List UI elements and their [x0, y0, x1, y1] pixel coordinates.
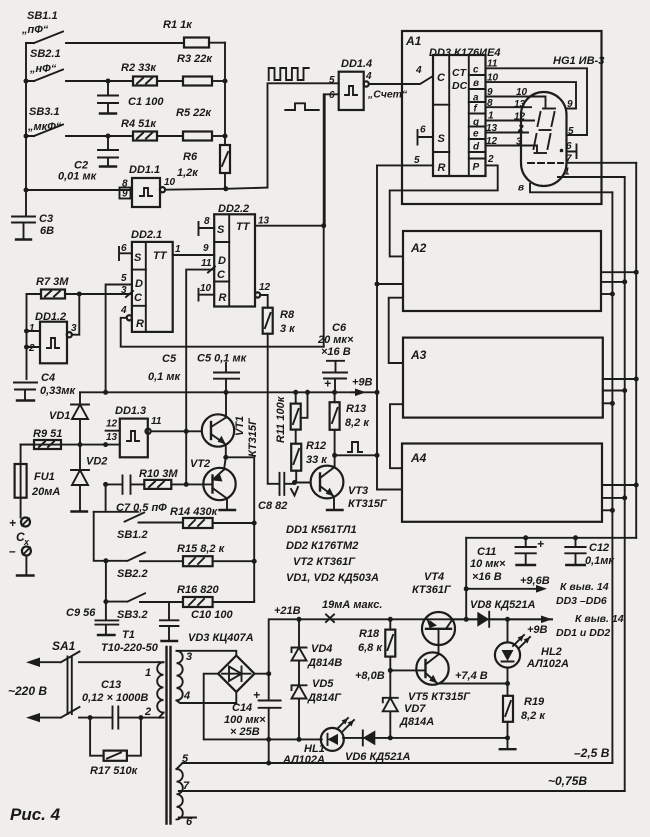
pin 8 stub DD2.2 S: [199, 222, 215, 235]
svg-text:0,01 мк: 0,01 мк: [58, 171, 98, 183]
wire +7.4 row: [438, 683, 508, 685]
resistor R18: [358, 619, 395, 670]
switch SA1 link: [68, 657, 72, 715]
node R19 bottom: [505, 735, 510, 740]
resistor R19: [500, 684, 547, 750]
node sensor column: [78, 442, 83, 447]
svg-text:VT2 КТ361Г: VT2 КТ361Г: [293, 556, 356, 568]
capacitor C12: [565, 538, 615, 567]
switch SB1.1: [21, 10, 184, 43]
svg-text:P: P: [473, 162, 480, 173]
svg-text:К выв. 14: К выв. 14: [560, 581, 609, 593]
wire A2 to A3 chain jog: [389, 298, 403, 363]
node emitters junction: [223, 455, 228, 460]
node A3a: [610, 401, 615, 406]
bus3 vertical right: [635, 163, 637, 538]
svg-text:SB2.2: SB2.2: [117, 568, 148, 580]
svg-text:S: S: [217, 224, 225, 236]
pin P carry wire: [390, 165, 498, 256]
resistor R12: [291, 440, 328, 483]
node junction DD1.1 input: [24, 188, 29, 193]
svg-text:R7 3М: R7 3М: [36, 276, 69, 288]
tube HG1 envelope: [521, 92, 567, 186]
tube pin 7 wire: [567, 162, 637, 164]
svg-text:„пФ“: „пФ“: [21, 24, 49, 36]
svg-text:2: 2: [144, 706, 151, 718]
wire R7 node to DD2.1 C: [79, 291, 133, 297]
gate DD1.3: [106, 405, 162, 457]
wire A3 stub c: [603, 378, 636, 380]
svg-text:11: 11: [151, 416, 162, 427]
transistor VT2: [190, 457, 236, 510]
svg-text:a: a: [473, 93, 479, 104]
capacitor C13: [82, 679, 148, 729]
svg-text:C: C: [217, 269, 226, 281]
svg-text:DD1 и DD2: DD1 и DD2: [556, 627, 610, 639]
svg-text:КТ315Г: КТ315Г: [348, 498, 388, 510]
node R3 right: [223, 79, 228, 84]
wire A3 stub a: [603, 402, 613, 404]
svg-text:+: +: [253, 688, 260, 702]
tube pin 8 wire: [530, 184, 612, 192]
svg-text:VD2: VD2: [86, 456, 107, 468]
pin 1 wire g: [486, 120, 535, 122]
wire R12 bottom to VT3 base: [295, 482, 311, 484]
resistor R5: [176, 107, 225, 141]
node DD1.2 pin1: [24, 329, 29, 334]
T1 winding 5-7: [177, 763, 183, 819]
svg-text:11: 11: [487, 59, 498, 70]
wire A4 stub c: [602, 484, 636, 486]
capacitor C10: [160, 602, 233, 641]
svg-text:A1: A1: [405, 34, 422, 48]
svg-text:КТ315Г: КТ315Г: [247, 417, 259, 457]
switch SB2.2: [106, 553, 183, 581]
pin 11 wire c: [486, 68, 588, 135]
svg-text:R18: R18: [359, 628, 380, 640]
node SB3.2 feed: [103, 599, 108, 604]
pin 12 wire d: [486, 146, 538, 153]
svg-text:S: S: [438, 133, 446, 145]
svg-text:d: d: [473, 142, 480, 153]
svg-text:SB3.2: SB3.2: [117, 609, 148, 621]
svg-text:0,12 × 1000В: 0,12 × 1000В: [82, 692, 148, 704]
diode VD1: [49, 392, 89, 444]
zener VD5: [292, 678, 343, 739]
svg-text:DD2.1: DD2.1: [131, 229, 162, 241]
wire left chain: [94, 512, 106, 620]
capacitor C4: [14, 372, 77, 401]
svg-text:8,2 к: 8,2 к: [521, 710, 546, 722]
svg-text:8,2 к: 8,2 к: [345, 417, 370, 429]
node HL2 top: [505, 617, 510, 622]
wire 0V rail: [343, 737, 508, 739]
svg-text:R9 51: R9 51: [33, 428, 62, 440]
svg-text:C13: C13: [101, 679, 121, 691]
T1 primary winding: [157, 662, 163, 717]
switch SA1 top pole: [26, 639, 159, 667]
wire A2 stub b: [601, 281, 625, 283]
svg-text:+: +: [324, 377, 331, 391]
pin 11 wire DD2.2 C: [186, 267, 215, 485]
switch SA1 bottom pole: [26, 707, 159, 722]
svg-text:+9,6В: +9,6В: [520, 575, 550, 587]
svg-text:9: 9: [487, 87, 493, 98]
node D-line: [103, 390, 108, 395]
switch SB2.1: [26, 48, 108, 81]
svg-text:9: 9: [567, 99, 573, 110]
svg-text:100 мк×: 100 мк×: [224, 714, 266, 726]
svg-text:C3: C3: [39, 213, 53, 225]
wire DD1.4 out to A1: [369, 76, 433, 84]
node VT1 collector: [224, 390, 229, 395]
pin 13 wire DD2.2 out: [255, 225, 324, 227]
svg-text:VD7: VD7: [404, 703, 426, 715]
svg-text:33 к: 33 к: [306, 454, 328, 466]
svg-text:10 мк×: 10 мк×: [470, 558, 506, 570]
wire A3 stub b: [603, 390, 625, 392]
gate DD1.1: [120, 164, 176, 207]
svg-text:в: в: [518, 183, 524, 194]
svg-text:DD2 К176ТМ2: DD2 К176ТМ2: [286, 540, 358, 552]
arrow +9V out: [527, 616, 552, 637]
block A1 box: [402, 31, 602, 204]
svg-text:7: 7: [566, 154, 572, 165]
IC DD3 box: [433, 55, 486, 176]
gate DD1.2: [27, 311, 78, 363]
svg-text:C10 100: C10 100: [191, 609, 233, 621]
svg-text:R3 22к: R3 22к: [177, 53, 213, 65]
node C14 bottom: [266, 737, 271, 742]
svg-text:+21В: +21В: [274, 605, 301, 617]
svg-text:АЛ102А: АЛ102А: [526, 658, 569, 670]
node C11 top: [523, 535, 528, 540]
svg-text:R: R: [136, 318, 144, 330]
node base tie: [184, 482, 189, 487]
fuse FU1: [15, 445, 61, 518]
svg-text:+: +: [537, 537, 544, 551]
wire DD1.1 inputs: [26, 189, 132, 191]
wire minus stub: [25, 556, 27, 575]
capacitor C1: [98, 81, 164, 114]
svg-text:8: 8: [487, 98, 493, 109]
node rail tie: [375, 390, 380, 395]
svg-text:0,1 мк: 0,1 мк: [148, 371, 181, 383]
svg-text:~0,75В: ~0,75В: [548, 774, 587, 788]
node VD5 bottom: [297, 737, 302, 742]
svg-text:+7,4 В: +7,4 В: [455, 670, 488, 682]
svg-text:12: 12: [106, 419, 118, 430]
capacitor C8: [258, 473, 298, 512]
T1 winding 3-4: [177, 651, 236, 703]
resistor R17: [90, 718, 141, 777]
svg-text:Рис. 4: Рис. 4: [10, 805, 61, 824]
svg-text:R6: R6: [183, 151, 198, 163]
block A2 box: [403, 231, 601, 311]
resistor R9: [21, 428, 63, 449]
svg-text:VD5: VD5: [312, 678, 334, 690]
svg-text:13: 13: [258, 216, 270, 227]
diode VD8: [453, 599, 553, 627]
svg-text:SA1: SA1: [52, 639, 76, 653]
svg-text:6: 6: [566, 141, 572, 152]
svg-text:DD1 К561ТЛ1: DD1 К561ТЛ1: [286, 524, 357, 536]
node C6 bottom: [332, 390, 337, 395]
svg-text:×16 В: ×16 В: [472, 571, 502, 583]
pin 10 wire b: [486, 82, 577, 108]
svg-text:C5: C5: [162, 353, 177, 365]
svg-text:HG1 ИВ-3: HG1 ИВ-3: [553, 55, 604, 67]
diode VD6: [345, 730, 411, 763]
svg-text:9: 9: [203, 243, 209, 254]
node R13 bottom: [332, 453, 337, 458]
x mark: [326, 615, 334, 623]
svg-text:5: 5: [329, 75, 335, 86]
node C13 right: [138, 715, 143, 720]
svg-text:12: 12: [259, 282, 271, 293]
svg-text:FU1: FU1: [34, 471, 55, 483]
svg-text:Д814Г: Д814Г: [307, 692, 342, 704]
svg-text:×16 В: ×16 В: [321, 346, 351, 358]
node R15 right: [252, 559, 257, 564]
block A4 box: [402, 444, 602, 522]
svg-text:T1: T1: [122, 629, 135, 641]
svg-text:1: 1: [145, 667, 151, 679]
node A2 R stub: [375, 282, 380, 287]
svg-text:в: в: [473, 78, 479, 89]
wire bridge plus: [255, 619, 553, 673]
svg-text:VD8 КД521А: VD8 КД521А: [470, 599, 536, 611]
svg-text:R19: R19: [524, 696, 545, 708]
resistor R6: [177, 145, 230, 189]
wire 0.75V line: [179, 790, 625, 792]
node R6 bottom: [223, 186, 228, 191]
svg-text:VD4: VD4: [311, 643, 332, 655]
wire R bus vertical: [224, 43, 226, 145]
svg-text:АЛ102А: АЛ102А: [282, 754, 325, 766]
capacitor C14: [224, 674, 281, 740]
node R5 right: [223, 134, 228, 139]
svg-text:10: 10: [200, 283, 212, 294]
svg-text:6: 6: [121, 243, 127, 254]
wire R7 left to DD1.2: [26, 294, 28, 379]
svg-text:КТ361Г: КТ361Г: [412, 584, 452, 596]
svg-text:R11 100к: R11 100к: [275, 395, 287, 443]
wire DD1.2 out to R7 node: [72, 294, 79, 335]
node +9.6 arrow: [464, 586, 469, 591]
capacitor C5: [197, 353, 248, 393]
svg-text:6: 6: [329, 90, 335, 101]
svg-text:SB1.1: SB1.1: [27, 10, 58, 22]
svg-text:20мА: 20мА: [31, 486, 60, 498]
node A2c: [634, 270, 639, 275]
capacitor C2: [58, 136, 118, 183]
capacitor C7: [106, 475, 168, 514]
label +9V arrow: [352, 377, 373, 397]
svg-text:13: 13: [106, 432, 118, 443]
pin 1 wire DD2.1 out: [173, 254, 215, 256]
svg-text:+9В: +9В: [352, 377, 373, 389]
wire A2 R stub: [377, 283, 403, 285]
node A3b: [622, 388, 627, 393]
svg-text:R5 22к: R5 22к: [176, 107, 212, 119]
node junction SB2.1: [24, 79, 29, 84]
wire DD1.4 pin6: [325, 94, 339, 225]
wire SB2.1 row: [108, 80, 133, 82]
wire sensor to SB1.2 row: [94, 484, 138, 511]
svg-text:SB3.1: SB3.1: [29, 106, 60, 118]
wire C14 to tap5: [268, 739, 270, 763]
svg-text:R10 3М: R10 3М: [139, 468, 178, 480]
wire bridge minus: [204, 674, 322, 740]
svg-text:10: 10: [516, 87, 528, 98]
svg-text:VD3 КЦ407А: VD3 КЦ407А: [188, 632, 254, 644]
pin 4 DD2.1 R: [120, 305, 324, 347]
svg-text:C14: C14: [232, 702, 252, 714]
svg-text:4: 4: [183, 690, 190, 702]
svg-text:VT4: VT4: [424, 571, 444, 583]
resistor R4: [121, 118, 183, 141]
pin 10 stub DD2.2 R: [199, 289, 215, 301]
svg-text:3: 3: [186, 651, 192, 663]
wire DD1.1 output row: [165, 188, 267, 190]
resistor R13: [330, 392, 371, 455]
svg-text:4: 4: [415, 65, 422, 76]
switch SB3.1: [26, 106, 108, 136]
wire A2 stub a: [601, 293, 612, 295]
node R11 top: [293, 390, 298, 395]
svg-text:R: R: [438, 162, 446, 174]
pin 6 stub DD2.1 S: [119, 247, 132, 260]
wire +9V rail: [80, 391, 378, 393]
svg-text:3 к: 3 к: [280, 323, 296, 335]
wire -2.5V line: [183, 762, 613, 764]
block A3 box: [403, 338, 603, 418]
svg-text:1: 1: [488, 111, 494, 122]
svg-text:VT3: VT3: [348, 485, 368, 497]
transistor VT1: [202, 392, 259, 457]
wire DD1.3 pin12 stub: [106, 430, 120, 432]
wire A4 stub b: [602, 497, 625, 499]
svg-text:+9В: +9В: [527, 624, 548, 636]
wire left input bus: [25, 43, 27, 190]
resistor R16: [177, 584, 254, 607]
svg-text:4: 4: [120, 305, 127, 316]
wire A2 stub c: [601, 271, 636, 273]
node C13 left: [88, 715, 93, 720]
node bridge plus: [266, 671, 271, 676]
svg-text:DD3 –DD6: DD3 –DD6: [556, 595, 607, 607]
wire A4 stub a: [602, 509, 612, 511]
svg-text:VT5 КТ315Г: VT5 КТ315Г: [408, 691, 471, 703]
node C1: [106, 79, 111, 84]
svg-text:–2,5 В: –2,5 В: [574, 746, 610, 760]
svg-text:S: S: [134, 252, 142, 264]
svg-text:DD1.4: DD1.4: [341, 58, 372, 70]
svg-text:VD6 КД521А: VD6 КД521А: [345, 751, 411, 763]
wire SB3.1 row: [108, 135, 133, 137]
transistor VT3: [311, 455, 388, 510]
svg-text:C: C: [134, 292, 143, 304]
svg-text:R15 8,2 к: R15 8,2 к: [177, 543, 226, 555]
svg-text:„нФ“: „нФ“: [29, 63, 57, 75]
svg-text:× 25В: × 25В: [230, 726, 260, 738]
svg-text:R12: R12: [306, 440, 326, 452]
resistor R15: [177, 543, 254, 566]
svg-text:C: C: [437, 72, 446, 84]
capacitor C9: [66, 607, 118, 635]
pin 8 wire f: [486, 106, 532, 108]
bus1 vertical right: [611, 192, 613, 763]
capacitor C3: [12, 190, 54, 240]
svg-text:7: 7: [183, 780, 190, 792]
svg-text:1: 1: [175, 244, 181, 255]
svg-text:R8: R8: [280, 309, 295, 321]
resistor R14: [170, 506, 254, 528]
svg-text:C6: C6: [332, 322, 347, 334]
svg-text:6: 6: [420, 125, 426, 136]
svg-text:c: c: [473, 65, 479, 76]
svg-text:20 мк×: 20 мк×: [317, 334, 354, 346]
svg-text:A2: A2: [410, 241, 427, 255]
resistor R3: [177, 53, 225, 86]
node R7 right: [77, 292, 82, 297]
arrow +9.6V out: [466, 575, 550, 593]
squarewave symbol: [269, 68, 309, 80]
zener VD4: [292, 619, 343, 685]
pin 13 wire e: [486, 132, 529, 134]
svg-text:10: 10: [487, 73, 499, 84]
tube pin 6 stub: [567, 145, 577, 159]
node R14 right: [252, 521, 257, 526]
svg-text:„мкФ“: „мкФ“: [27, 121, 62, 133]
svg-text:R1 1к: R1 1к: [163, 19, 193, 31]
wire DD1.1 out to DD1.4 pin5: [268, 83, 339, 187]
svg-text:2: 2: [28, 343, 35, 354]
transformer T1 core: [167, 647, 171, 824]
svg-text:5: 5: [182, 753, 189, 765]
pin R wire: [377, 164, 433, 166]
svg-text:R13: R13: [346, 403, 366, 415]
svg-text:12: 12: [486, 136, 498, 147]
node VD8 cathode: [464, 617, 469, 622]
diode VD2: [71, 445, 107, 512]
node A4c: [634, 483, 639, 488]
svg-text:К выв. 14: К выв. 14: [575, 613, 624, 625]
wire DD1.3 out to VT1 base: [151, 430, 202, 432]
LED HL1: [282, 718, 354, 766]
node C7 left: [103, 482, 108, 487]
svg-text:DC: DC: [452, 80, 468, 92]
svg-text:8: 8: [204, 216, 210, 227]
node VD7 bottom: [388, 735, 393, 740]
svg-text:–: –: [9, 544, 16, 558]
svg-text:11: 11: [201, 258, 212, 269]
svg-text:5: 5: [121, 273, 127, 284]
svg-text:DD3 К176ИЕ4: DD3 К176ИЕ4: [429, 47, 501, 59]
svg-text:A4: A4: [410, 451, 427, 465]
wire DD2.1 D: [106, 285, 132, 393]
svg-text:+8,0В: +8,0В: [355, 670, 385, 682]
pin 9 wire a: [486, 97, 546, 108]
svg-text:~220 В: ~220 В: [8, 684, 47, 698]
svg-text:1: 1: [564, 167, 570, 178]
svg-text:R14 430к: R14 430к: [170, 506, 219, 518]
svg-text:1,2к: 1,2к: [177, 167, 199, 179]
pin S stub: [418, 130, 434, 145]
svg-text:HL2: HL2: [541, 646, 562, 658]
resistor R8: [263, 308, 296, 484]
